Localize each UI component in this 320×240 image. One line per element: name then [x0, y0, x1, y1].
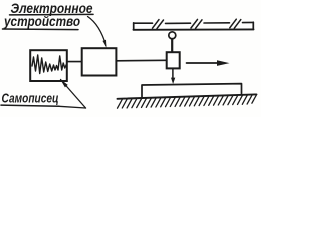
leader line vertex to recorder box: [61, 80, 86, 109]
break mark group 3: [230, 19, 241, 28]
underline under устройство: [3, 28, 79, 31]
wire electronics to pickup: [117, 59, 167, 62]
recorder box (Самописец): [30, 50, 67, 81]
contact force arrowhead: [171, 78, 175, 84]
contact force arrow shaft: [172, 69, 174, 79]
ground line: [118, 94, 257, 98]
underline under Самописец: [1, 105, 59, 106]
traverse bar top edge segment 4: [243, 21, 254, 23]
wire recorder to electronics: [67, 61, 82, 63]
traverse bar right end: [252, 22, 254, 29]
electronics box: [82, 48, 117, 75]
pickup body: [167, 52, 180, 68]
break mark group 2: [191, 19, 202, 28]
traverse bar left end: [133, 23, 135, 30]
stylus ball: [169, 32, 176, 39]
leader line from label to electronics box: [88, 17, 106, 46]
traverse direction arrow shaft: [187, 62, 220, 64]
waveform trace inside recorder: [32, 55, 66, 74]
underline under Электронное: [10, 13, 94, 16]
traverse bar top edge segment 3: [204, 22, 230, 24]
svg-text:Самописец: Самописец: [2, 90, 59, 105]
leader arrowhead at electronics box: [102, 40, 106, 48]
leader arrowhead at recorder box: [60, 79, 68, 87]
traverse direction arrowhead: [217, 60, 230, 66]
ground hatching: [118, 95, 257, 109]
leader line from Самописец to vertex: [59, 106, 86, 108]
traverse bar bottom edge: [134, 28, 254, 30]
traverse bar top edge segment 2: [166, 22, 191, 24]
break mark group 1: [153, 20, 164, 29]
stylus stem: [171, 39, 173, 53]
workpiece outline: [142, 84, 242, 98]
traverse bar top edge segment 1: [134, 22, 153, 24]
svg-text:устройство: устройство: [3, 14, 80, 29]
